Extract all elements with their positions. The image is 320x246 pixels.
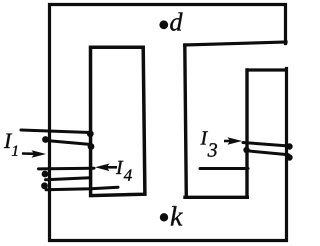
coil4 turn 1 bbox=[39, 167, 95, 171]
coil4 turn-end dot left 2 bbox=[41, 182, 48, 189]
coil3 turn-end dot left bbox=[243, 147, 249, 153]
coil3 turn-end dot right 1 bbox=[286, 143, 292, 149]
node d dot bbox=[159, 20, 168, 29]
coil1 turn-end dot right 1 bbox=[87, 130, 94, 137]
current arrow I4 bbox=[95, 164, 117, 172]
label d bbox=[170, 12, 182, 30]
current arrow I3 bbox=[224, 137, 242, 145]
label k bbox=[171, 206, 183, 225]
coil3 turn 1 bbox=[243, 143, 289, 147]
right window right edge (right leg) bbox=[245, 70, 248, 197]
coil1 turn 2 bbox=[46, 141, 91, 145]
right window bottom edge bbox=[185, 196, 247, 199]
label I1 bbox=[4, 134, 18, 156]
coil1 turn-end dot right 2 bbox=[88, 143, 95, 150]
coil4 turn 3 + lead out into window bbox=[46, 187, 118, 190]
core outer boundary (right edge broken by air gap) bbox=[50, 5, 287, 241]
coil1 turn-end dot left bbox=[42, 136, 49, 143]
coil3 turn 2 bbox=[247, 151, 289, 155]
left window bbox=[91, 47, 145, 195]
label I4 bbox=[116, 161, 132, 181]
air-gap lower face bbox=[248, 68, 286, 71]
coil4 turn-end dot left 1 bbox=[42, 171, 49, 178]
label I3 bbox=[200, 131, 217, 156]
coil3 lead out into window bbox=[200, 167, 248, 170]
coil3 turn-end dot right 2 bbox=[286, 154, 292, 160]
coil1 turn 1 (lead in from left) bbox=[21, 130, 90, 133]
coil4 turn 2 bbox=[46, 178, 91, 180]
current arrow I1 bbox=[22, 150, 46, 158]
node k dot bbox=[160, 213, 168, 221]
air-gap upper face bbox=[185, 42, 286, 45]
right window left edge bbox=[185, 45, 187, 197]
